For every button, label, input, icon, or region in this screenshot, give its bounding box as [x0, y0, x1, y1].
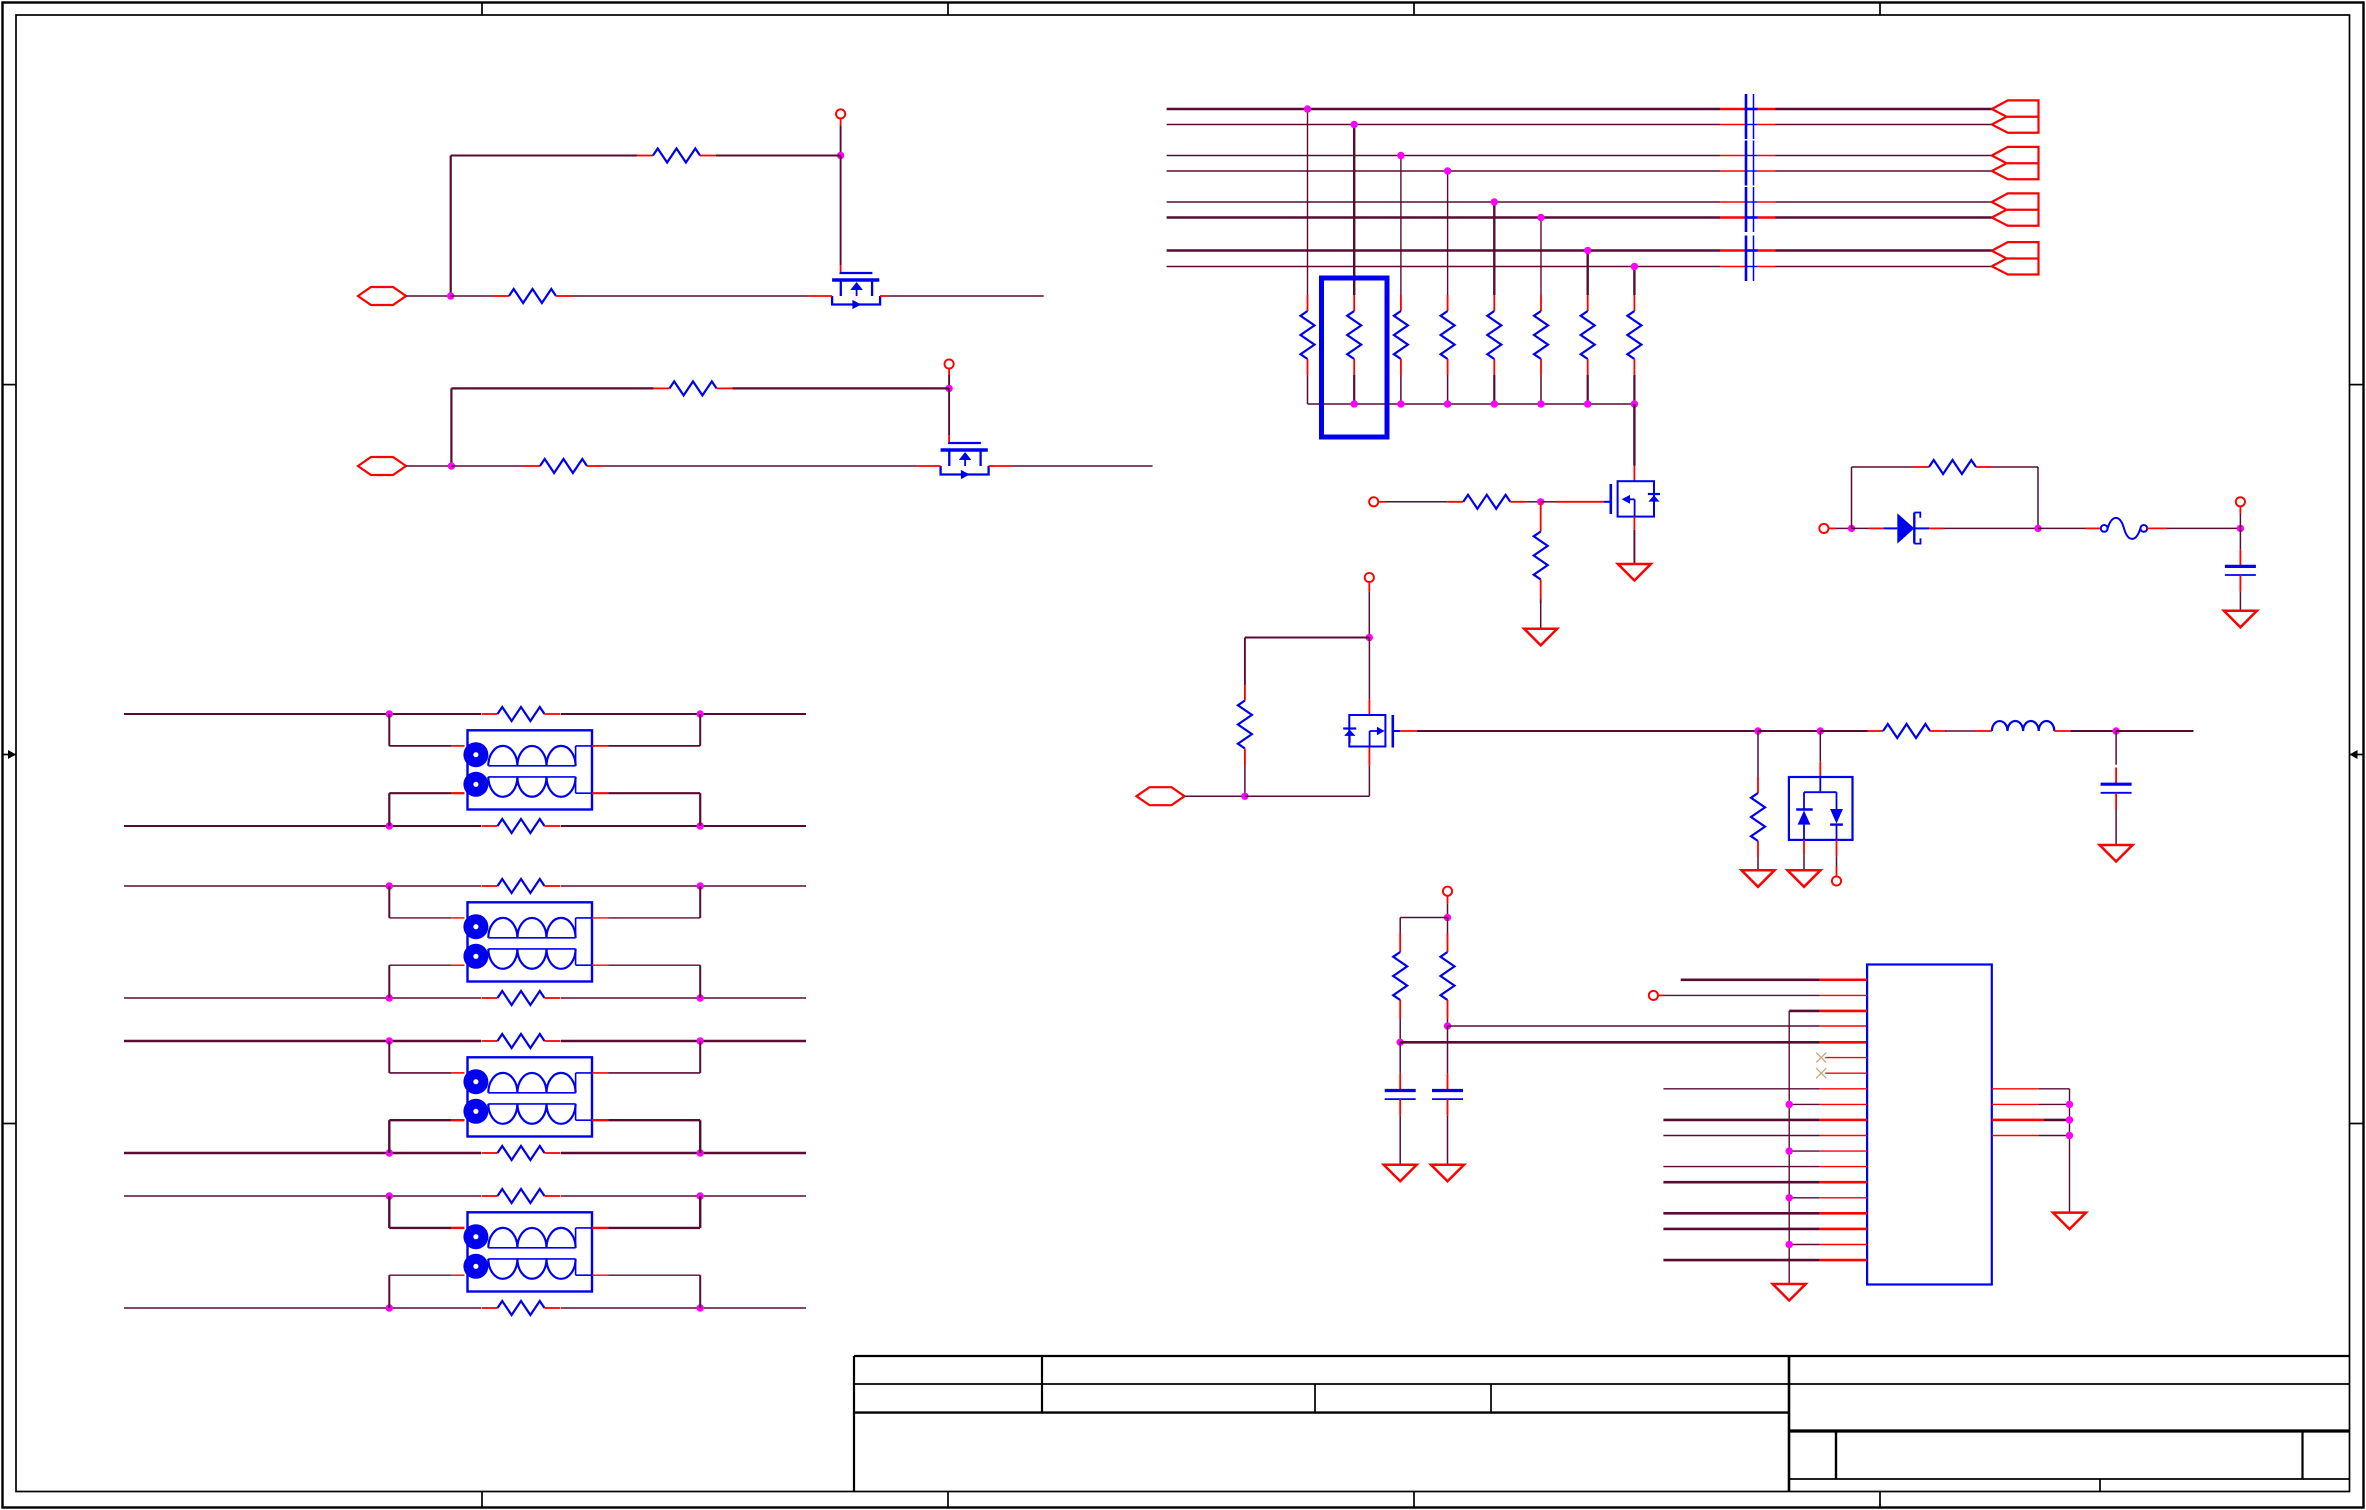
bus entry bars pair 1: [1746, 94, 1754, 139]
resistor RT4 top: [482, 1189, 561, 1203]
node bus junction 2: [1351, 121, 1358, 128]
node rail junction 8: [1631, 400, 1638, 407]
wire node I to Q3 drain: [1368, 638, 1370, 716]
node K junction: [1754, 727, 1761, 734]
wire RN5 to common rail: [1493, 375, 1495, 404]
common-mode choke T3: [451, 1057, 608, 1136]
wire IC pin 2 net: [1664, 994, 1867, 996]
node D junction: [448, 462, 455, 469]
node block 3 top-left junction: [386, 1037, 393, 1044]
control pin P3: [1369, 497, 1385, 506]
bus entry bars pair 4: [1746, 236, 1754, 282]
resistor RN1 termination: [1301, 295, 1315, 375]
wire IC pin 12 from ground rail: [1789, 1150, 1867, 1152]
wire left vertical corner to port rail: [450, 156, 452, 297]
wire IC pin 17 net: [1663, 1228, 1867, 1231]
resistor R5: [1447, 495, 1526, 509]
input pin P4: [1819, 524, 1836, 533]
node bus junction 8: [1631, 263, 1638, 270]
wire bus drop 7: [1586, 251, 1588, 296]
wire bus line 1 red segments at entry bars: [1720, 108, 1776, 111]
title block divider x2302: [2301, 1431, 2303, 1479]
wire bus line 1: [1167, 108, 1992, 111]
wire IC pin 10 net: [1663, 1119, 1867, 1122]
ground symbol GND6: [2100, 845, 2133, 862]
wire C1 to ground: [2239, 592, 2241, 611]
wire bus line 7: [1167, 249, 1992, 252]
node N junction: [1444, 914, 1451, 921]
ground symbol GND5: [1788, 870, 1821, 887]
wire D2 anode to ground: [1803, 840, 1805, 870]
wire IC pin 1 net: [1681, 978, 1867, 981]
node G junction: [2034, 525, 2041, 532]
wire left rail down to R8: [1244, 638, 1246, 686]
power pin P6: [1365, 573, 1374, 592]
wire node M to capacitor C2: [2115, 731, 2117, 765]
resistor RN7 termination: [1581, 295, 1595, 375]
fuse F1: [2101, 518, 2147, 539]
wire node I left rail: [1245, 637, 1369, 639]
wire bus line 7 red segments at entry bars: [1720, 249, 1776, 252]
zone tick marks left edge: [3, 385, 17, 1124]
node block 2 top-left junction: [386, 882, 393, 889]
resistor R8 gate pull-up: [1238, 685, 1252, 765]
wire node O to IC pin 5: [1400, 1041, 1867, 1044]
wire C4 to ground: [1447, 1116, 1449, 1165]
wire IC right pin A: [1992, 1089, 2070, 1213]
connector arrow J3: [1992, 193, 2039, 225]
wire R12 to node P: [1447, 1019, 1449, 1026]
wire R11 to node O: [1399, 1019, 1401, 1042]
connector arrow J4: [1992, 242, 2039, 274]
wire D1 to node G: [1944, 527, 2039, 529]
ground symbol GND4: [1742, 870, 1775, 887]
wire M1 output: [887, 295, 1044, 297]
wire bus line 6: [1167, 216, 1992, 219]
node I junction: [1366, 634, 1373, 641]
wire bus line 3: [1167, 155, 1992, 157]
wire magnetics block 4 top line: [124, 1195, 806, 1197]
wire port P2 to node D: [406, 465, 451, 467]
wire IC pin 13 net: [1663, 1166, 1867, 1168]
bus entry bars pair 3: [1746, 187, 1754, 232]
resistor RN3 termination: [1394, 295, 1408, 375]
wire block 1 top-left feed: [389, 714, 451, 746]
wire IC pin 9 from ground rail: [1789, 1103, 1867, 1105]
wire bus drop 8: [1633, 267, 1635, 296]
node O junction: [1397, 1039, 1404, 1046]
resistor RN2 termination: [1347, 295, 1361, 375]
wire block 1 bottom-right return: [608, 793, 700, 826]
node ground rail junction pin 18: [1786, 1241, 1793, 1248]
wire block 4 bottom-right return: [608, 1275, 700, 1308]
wire M2 output: [995, 465, 1152, 467]
wire IC right pin D: [1992, 1135, 2070, 1137]
wire node K to node L: [1758, 730, 1820, 732]
resistor RT2 top: [482, 879, 561, 893]
wire node C top rail: [451, 387, 949, 389]
resistor RB4 bottom: [482, 1301, 561, 1315]
resistor R1: [637, 149, 716, 163]
wire RN7 to common rail: [1587, 375, 1589, 404]
wire node N to left column: [1400, 918, 1447, 934]
connector arrow J1: [1992, 100, 2039, 132]
port P2 hexagon: [358, 457, 406, 475]
ground symbol GND9: [1773, 1284, 1806, 1301]
wire node O to capacitor C3: [1399, 1042, 1401, 1074]
title block outline: [854, 1356, 2350, 1492]
node block 4 top-left junction: [386, 1192, 393, 1199]
zone tick marks right edge: [2350, 385, 2364, 1124]
resistor RB3 bottom: [482, 1146, 561, 1160]
ground symbol GND10: [2053, 1213, 2086, 1230]
wire node H to capacitor C1: [2239, 528, 2241, 549]
wire node L to resistor R9: [1820, 730, 1868, 732]
wire C3 to ground: [1399, 1116, 1401, 1165]
wire magnetics block 2 bottom line: [124, 997, 806, 999]
node C junction: [945, 385, 952, 392]
node bus junction 6: [1537, 214, 1544, 221]
wire magnetics block 1 bottom line: [124, 825, 806, 827]
wire C2 to ground: [2115, 810, 2117, 846]
title block divider x1042: [1041, 1356, 1043, 1413]
wire M1 gate drop: [840, 156, 842, 273]
wire block 2 bottom-right return: [608, 965, 700, 998]
ground symbol GND7: [1384, 1165, 1417, 1182]
resistor R12: [1441, 933, 1455, 1019]
wire bus line 8: [1167, 266, 1992, 268]
node block 1 bottom-right junction: [697, 822, 704, 829]
wire magnetics block 4 bottom line: [124, 1307, 806, 1309]
power pin VCC1: [836, 109, 845, 126]
node right rail junction 1: [2066, 1101, 2073, 1108]
capacitor C1: [2225, 550, 2256, 592]
title block row line y1384: [854, 1383, 2350, 1385]
transistor Q4: [1604, 481, 1660, 516]
wire node G to fuse F1: [2038, 527, 2101, 529]
resistor RN4 termination: [1441, 295, 1455, 375]
wire RN8 to common rail: [1633, 375, 1635, 404]
node block 2 bottom-right junction: [697, 994, 704, 1001]
capacitor C4: [1432, 1074, 1463, 1116]
wire R4 to MOSFET M2: [603, 465, 917, 467]
TVS diode pair D2: [1789, 777, 1853, 840]
wire block 4 top-left feed: [389, 1196, 451, 1228]
connector arrow J2: [1992, 147, 2039, 179]
resistor R7 bypass: [1913, 460, 1992, 474]
wire IC left ground rail: [1788, 1011, 1790, 1284]
resistor R11: [1393, 933, 1407, 1019]
wire port P1 to node B: [406, 295, 451, 297]
transistor M1: [809, 272, 887, 309]
title block divider x2100 bottom row: [2099, 1479, 2101, 1492]
wire block 3 bottom-right return: [608, 1120, 700, 1153]
wire VCC1 pin to node A: [840, 126, 842, 156]
wire R6 to ground: [1540, 600, 1542, 629]
pin P8 reference: [1832, 876, 1841, 885]
node M junction: [2112, 727, 2119, 734]
node ground rail junction pin 12: [1786, 1147, 1793, 1154]
node bus junction 1: [1304, 105, 1311, 112]
wire R2 to MOSFET M1: [572, 295, 809, 297]
wire block 3 bottom-left feed: [389, 1120, 451, 1153]
wire bus line 2 red segments at entry bars: [1720, 124, 1776, 126]
resistor R3: [654, 381, 733, 395]
resistor RN8 termination: [1627, 295, 1641, 375]
zone tick marks top edge: [482, 3, 1880, 16]
wire bus drop 4: [1447, 171, 1449, 295]
wire bus drop 5: [1493, 202, 1495, 295]
inductor L1: [1992, 721, 2054, 731]
node bus junction 4: [1444, 167, 1451, 174]
capacitor C2: [2101, 768, 2132, 810]
node bus junction 3: [1397, 152, 1404, 159]
wire block 3 top-left feed: [389, 1041, 451, 1073]
common-mode choke T1: [451, 730, 608, 809]
wire node P to IC pin 4: [1448, 1025, 1868, 1027]
wire bus drop 6: [1540, 218, 1542, 296]
wire L1 to node M: [2054, 730, 2116, 732]
wire node N down right column: [1447, 918, 1449, 934]
node L junction: [1817, 727, 1824, 734]
wire magnetics block 2 top line: [124, 885, 806, 887]
node A junction: [837, 152, 844, 159]
ground symbol GND3: [2224, 611, 2257, 628]
wire M2 gate drop: [948, 388, 950, 442]
power pin VCC2: [945, 359, 954, 375]
power pin P9: [1443, 887, 1452, 904]
node block 1 bottom-left junction: [386, 822, 393, 829]
title block row line y1479 right section: [1789, 1478, 2350, 1480]
wire P6 to node I: [1368, 592, 1370, 638]
wire bus line 2: [1167, 124, 1992, 126]
wire port P7 to node J: [1185, 795, 1245, 797]
no-connect cross pin 7: [1816, 1068, 1826, 1078]
node ground rail junction pin 15: [1786, 1194, 1793, 1201]
wire node E to Q4 gate: [1541, 501, 1604, 503]
transistor M2: [917, 442, 995, 479]
wire bus line 5 red segments at entry bars: [1720, 201, 1776, 203]
title block divider x1315: [1314, 1384, 1316, 1413]
wire bus line 4 red segments at entry bars: [1720, 170, 1776, 172]
resistor R9 series: [1867, 724, 1946, 738]
wire node M output: [2116, 730, 2193, 732]
wire IC pin 7 stub: [1825, 1072, 1867, 1074]
wire P9 to node N: [1447, 903, 1449, 917]
resistor RN6 termination: [1534, 295, 1548, 375]
wire block 1 bottom-left feed: [389, 793, 451, 826]
wire bus line 6 red segments at entry bars: [1720, 216, 1776, 219]
wire block 2 top-left feed: [389, 886, 451, 918]
node P junction: [1444, 1022, 1451, 1029]
wire Q4 source to ground: [1633, 517, 1635, 564]
wire bus drop 2: [1353, 125, 1355, 296]
wire bus line 5: [1167, 201, 1992, 203]
wire R8 to port rail: [1244, 765, 1246, 797]
wire P5 to node H: [2239, 513, 2241, 528]
node bus junction 7: [1584, 247, 1591, 254]
node H junction: [2237, 525, 2244, 532]
ground symbol GND8: [1431, 1165, 1464, 1182]
wire R10 to ground: [1757, 857, 1759, 870]
capacitor C3: [1385, 1074, 1416, 1116]
port P7 hexagon: [1137, 787, 1185, 805]
pin P10 no-connect: [1649, 991, 1664, 1000]
node rail junction 6: [1537, 400, 1544, 407]
resistor RN5 termination: [1487, 295, 1501, 375]
title block row line y1431 right section: [1789, 1429, 2350, 1432]
node B junction: [447, 292, 454, 299]
node rail junction 7: [1584, 400, 1591, 407]
wire bus drop 1: [1307, 109, 1309, 295]
node right rail junction 2: [2066, 1116, 2073, 1123]
wire magnetics block 3 bottom line: [124, 1152, 806, 1155]
node block 4 bottom-left junction: [386, 1304, 393, 1311]
wire bus line 4: [1167, 170, 1992, 172]
node rail junction 3: [1397, 400, 1404, 407]
wire RN1 to common rail: [1307, 375, 1309, 404]
wire R5 to node E: [1526, 501, 1540, 503]
wire R9 to inductor L1: [1945, 730, 1992, 732]
wire block 1 top-right return: [608, 714, 700, 746]
wire P4 to node F: [1836, 527, 1852, 529]
wire IC pin 3 net from rail corner: [1789, 1010, 1867, 1013]
node block 3 bottom-right junction: [697, 1149, 704, 1156]
wire node K to resistor R10: [1757, 731, 1759, 777]
resistor R4: [524, 459, 603, 473]
node block 3 bottom-left junction: [386, 1149, 393, 1156]
wire IC pin 19 net: [1663, 1259, 1867, 1262]
wire IC pin 14 net: [1663, 1181, 1867, 1184]
title block divider x1491: [1490, 1384, 1492, 1413]
wire block 4 bottom-left feed: [389, 1275, 451, 1308]
wire left vertical to port rail 2: [450, 388, 452, 466]
zone tick marks bottom edge: [482, 1492, 1880, 1508]
port P1 hexagon: [358, 287, 406, 305]
wire IC right pin B: [1992, 1103, 2070, 1105]
wire bypass loop up-over: [1852, 467, 2039, 528]
ground symbol GND1: [1524, 629, 1557, 646]
node J junction: [1241, 793, 1248, 800]
resistor R2: [493, 289, 572, 303]
wire node L to TVS D2: [1819, 731, 1821, 777]
sheet centre arrow right edge: [2350, 750, 2364, 759]
node ground rail junction pin 9: [1786, 1101, 1793, 1108]
node rail junction 4: [1444, 400, 1451, 407]
node block 1 top-right junction: [697, 710, 704, 717]
wire node J to Q3 source: [1245, 747, 1370, 797]
wire block 4 top-right return: [608, 1196, 700, 1228]
resistor RT1 top: [482, 707, 561, 721]
wire termination common rail: [1308, 403, 1635, 405]
bus entry bars pair 2: [1746, 141, 1754, 186]
wire RN6 to common rail: [1540, 375, 1542, 404]
resistor R10 load: [1751, 777, 1765, 857]
wire IC pin 6 stub: [1825, 1057, 1867, 1059]
wire IC pin 11 net: [1663, 1135, 1867, 1137]
wire D2 reference pin: [1836, 840, 1838, 876]
wire RN4 to common rail: [1447, 375, 1449, 404]
common-mode choke T4: [451, 1212, 608, 1291]
wire magnetics block 1 top line: [124, 713, 806, 715]
wire bus line 8 red segments at entry bars: [1720, 266, 1776, 268]
wire IC right pin C: [1992, 1119, 2070, 1122]
transistor Q3: [1343, 715, 1400, 748]
wire IC pin 16 net: [1663, 1212, 1867, 1215]
wire bus rail to Q4 drain: [1633, 404, 1635, 481]
wire node A top rail to left corner: [451, 155, 841, 157]
wire RN3 to common rail: [1400, 375, 1402, 404]
sheet centre arrow left edge: [3, 750, 17, 759]
wire IC pin 15 from ground rail: [1789, 1197, 1867, 1199]
wire node B to resistor R2: [451, 295, 493, 297]
ground symbol GND2: [1618, 564, 1651, 581]
wire block 2 bottom-left feed: [389, 965, 451, 998]
node block 4 bottom-right junction: [697, 1304, 704, 1311]
IC U1 body: [1867, 965, 1992, 1285]
wire IC pin 8 net: [1663, 1088, 1867, 1090]
diode D1: [1852, 513, 1944, 544]
power pin P5: [2236, 497, 2245, 513]
node F junction: [1848, 525, 1855, 532]
common-mode choke T2: [451, 902, 608, 981]
title block divider x1836: [1835, 1431, 1837, 1479]
wire bus line 3 red segments at entry bars: [1720, 155, 1776, 157]
wire P3 to resistor R5: [1385, 501, 1447, 503]
node block 3 top-right junction: [697, 1037, 704, 1044]
node bus junction 5: [1491, 198, 1498, 205]
resistor R6 pulldown: [1534, 502, 1548, 604]
node block 1 top-left junction: [386, 710, 393, 717]
wire block 2 top-right return: [608, 886, 700, 918]
wire fuse F1 to node H: [2147, 527, 2240, 529]
no-connect cross pin 6: [1816, 1053, 1826, 1063]
node right rail junction 3: [2066, 1132, 2073, 1139]
node rail junction 5: [1491, 400, 1498, 407]
wire IC pin 18 from ground rail: [1789, 1244, 1867, 1246]
highlight box around RN2: [1322, 278, 1388, 437]
resistor RB1 bottom: [482, 819, 561, 833]
node block 2 bottom-left junction: [386, 994, 393, 1001]
wire bus drop 3: [1400, 156, 1402, 296]
node block 2 top-right junction: [697, 882, 704, 889]
wire block 3 top-right return: [608, 1041, 700, 1073]
node block 4 top-right junction: [697, 1192, 704, 1199]
wire VCC2 pin to node C: [948, 375, 950, 388]
resistor RT3 top: [482, 1034, 561, 1048]
node E junction: [1537, 498, 1544, 505]
resistor RB2 bottom: [482, 991, 561, 1005]
wire node P to capacitor C4: [1447, 1026, 1449, 1074]
title block row line y1413 left section: [854, 1411, 1789, 1413]
wire Q3 gate to output rail: [1400, 730, 1758, 732]
wire RN2 to common rail: [1353, 375, 1355, 404]
wire node D to resistor R4: [451, 465, 524, 467]
wire magnetics block 3 top line: [124, 1040, 806, 1043]
node rail junction 2: [1351, 400, 1358, 407]
